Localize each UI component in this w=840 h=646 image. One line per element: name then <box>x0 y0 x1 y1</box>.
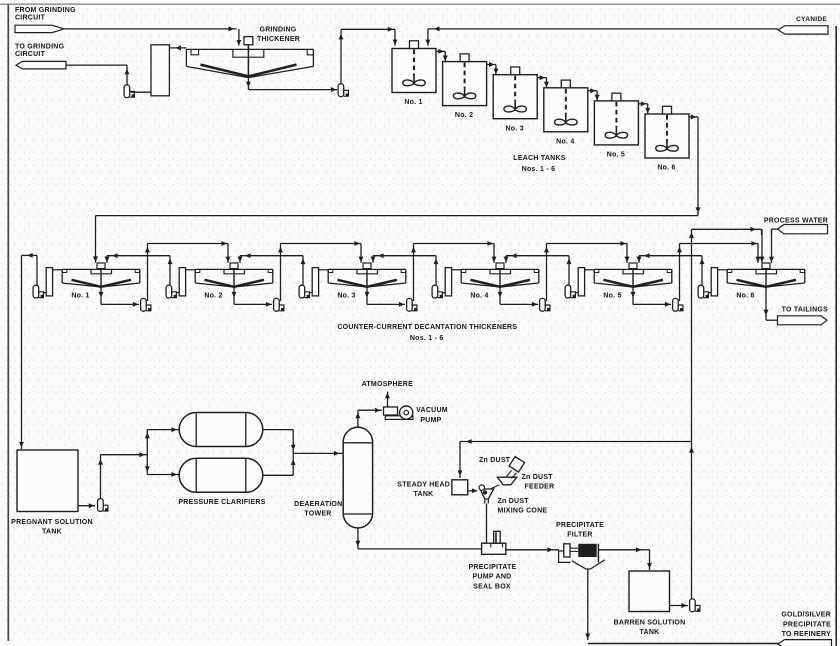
CCD No. 1 overflow return wire <box>36 256 38 286</box>
svg-text:Zn DUST: Zn DUST <box>498 498 530 505</box>
svg-text:TANK: TANK <box>414 491 434 498</box>
CCD No. 2 underflow wire and pump <box>233 287 235 304</box>
pump CCD No. 6 overflow <box>698 285 709 298</box>
CCD No. 4 underflow wire and pump <box>499 287 501 304</box>
svg-text:MIXING CONE: MIXING CONE <box>498 507 548 514</box>
leach tank No. 2 <box>443 54 487 106</box>
svg-text:BARREN SOLUTION: BARREN SOLUTION <box>614 619 686 626</box>
vacuum pump <box>384 406 413 419</box>
CCD No. 3 overflow return wire <box>302 256 304 286</box>
wire tower bottom to seal box <box>357 528 359 549</box>
svg-text:TO GRINDING: TO GRINDING <box>15 43 65 50</box>
svg-text:No. 2: No. 2 <box>455 112 473 119</box>
svg-text:SEAL BOX: SEAL BOX <box>473 583 511 590</box>
wire CCD No. 3 underflow to No. 4 <box>413 244 415 302</box>
pressure clarifier bottom vessel <box>179 458 263 492</box>
CCD No. 2 overflow return wire <box>169 256 171 286</box>
wire leach tank 4 to 5 <box>588 90 597 92</box>
wire vacuum pump vent to atmosphere <box>387 392 389 407</box>
CCD No. 5 feed entries <box>626 244 628 263</box>
wire CCD feed line from leach tanks <box>96 215 699 217</box>
Zn dust mixing cone <box>490 485 500 489</box>
svg-text:PRECIPITATE: PRECIPITATE <box>783 621 831 628</box>
pressure clarifier top vessel <box>179 413 263 447</box>
wire to-grinding from overflow pump <box>66 64 127 66</box>
wire pregnant solution down to tank <box>21 255 23 449</box>
svg-text:TO REFINERY: TO REFINERY <box>782 631 832 638</box>
deaeration tower <box>343 427 372 528</box>
overflow surge box <box>151 45 169 96</box>
wire barren solution riser <box>691 229 693 599</box>
wire barren tank to pump <box>670 605 689 607</box>
pump P-2 grinding thickener underflow <box>338 84 349 97</box>
svg-text:No. 3: No. 3 <box>506 125 524 132</box>
CCD thickener No. 5 <box>594 263 672 287</box>
svg-text:No. 4: No. 4 <box>470 292 488 299</box>
wire mixing cone to seal box <box>486 504 488 544</box>
svg-text:CIRCUIT: CIRCUIT <box>15 15 46 22</box>
flag TO TAILINGS <box>778 316 828 325</box>
CCD No. 3 feed entries <box>360 244 362 263</box>
precipitate pump and seal box <box>482 531 506 554</box>
CCD No. 6 underflow to tailings <box>765 287 767 320</box>
svg-text:No. 5: No. 5 <box>603 292 621 299</box>
CCD No. 3 underflow wire and pump <box>366 287 368 304</box>
wire thickener overflow to surge box <box>169 47 186 49</box>
pump CCD No. 1 overflow <box>33 285 44 298</box>
svg-text:PUMP AND: PUMP AND <box>473 574 512 581</box>
leach tank No. 6 <box>645 106 689 158</box>
flag CYANIDE <box>778 26 828 34</box>
pump P-1 grinding thickener overflow <box>124 85 135 98</box>
wire tower top to vacuum pump <box>357 410 359 427</box>
svg-text:DEAERATION: DEAERATION <box>294 501 342 508</box>
svg-text:TO TAILINGS: TO TAILINGS <box>782 306 829 313</box>
svg-text:Zn DUST: Zn DUST <box>522 474 554 481</box>
pump CCD No. 3 underflow <box>407 298 418 311</box>
wire leach tank 1 to 2 <box>436 50 445 52</box>
flag GOLD/SILVER PRECIPITATE <box>778 640 832 646</box>
svg-text:Zn DUST: Zn DUST <box>479 457 511 464</box>
svg-text:PROCESS WATER: PROCESS WATER <box>764 217 828 224</box>
wire seal box to precipitate filter <box>506 549 559 551</box>
svg-text:FILTER: FILTER <box>567 532 592 539</box>
grinding thickener underflow wire <box>247 78 249 90</box>
CCD No. 5 overflow column <box>578 268 584 296</box>
barren solution tank <box>629 571 670 612</box>
svg-text:GRINDING: GRINDING <box>260 26 297 33</box>
pump CCD No. 5 underflow <box>673 298 684 311</box>
Zn dust hopper <box>509 457 524 472</box>
svg-text:PREGNANT SOLUTION: PREGNANT SOLUTION <box>11 519 93 526</box>
svg-text:No. 3: No. 3 <box>337 292 355 299</box>
leach tank No. 1 <box>392 41 436 93</box>
clarifier feed split wire <box>146 430 148 455</box>
wire leach tank 5 to 6 <box>638 103 647 105</box>
pump CCD No. 5 overflow <box>565 285 576 298</box>
CCD No. 5 underflow wire and pump <box>632 287 634 304</box>
CCD No. 6 overflow column <box>711 268 717 296</box>
page right border <box>835 26 837 646</box>
wire from-grinding to thickener feed <box>64 28 237 30</box>
wire surge box to pump <box>131 91 151 93</box>
CCD No. 1 underflow wire and pump <box>100 287 102 304</box>
wire barren branch to steady head tank <box>460 441 692 443</box>
pump P-3 clarifier feed <box>98 499 109 512</box>
wire CCD No. 2 underflow to No. 3 <box>280 244 282 302</box>
svg-text:PRESSURE CLARIFIERS: PRESSURE CLARIFIERS <box>178 499 265 506</box>
svg-text:STEADY HEAD: STEADY HEAD <box>397 481 450 488</box>
CCD thickener No. 1 <box>62 263 140 287</box>
CCD thickener No. 2 <box>195 263 273 287</box>
svg-text:CYANIDE: CYANIDE <box>796 16 827 23</box>
CCD thickener No. 4 <box>461 263 539 287</box>
svg-text:CIRCUIT: CIRCUIT <box>15 51 46 58</box>
svg-text:No. 1: No. 1 <box>404 99 422 106</box>
flag TO GRINDING CIRCUIT <box>16 61 66 69</box>
pregnant solution tank <box>17 450 78 512</box>
CCD No. 1 overflow column <box>46 268 52 296</box>
CCD No. 1 feed entries <box>106 256 108 263</box>
filter discharge funnel <box>572 560 605 569</box>
flag FROM GRINDING CIRCUIT <box>15 25 64 32</box>
svg-text:GOLD/SILVER: GOLD/SILVER <box>781 612 831 619</box>
svg-text:Nos. 1 - 6: Nos. 1 - 6 <box>522 166 556 173</box>
CCD thickener No. 3 <box>328 263 406 287</box>
pump CCD No. 4 underflow <box>540 298 551 311</box>
svg-text:No. 4: No. 4 <box>556 138 574 145</box>
leach tank No. 3 <box>493 67 537 119</box>
svg-text:TANK: TANK <box>640 629 660 636</box>
CCD No. 6 overflow return wire <box>701 256 703 286</box>
svg-text:LEACH TANKS: LEACH TANKS <box>513 155 565 162</box>
wire leach tank 2 to 3 <box>487 64 496 66</box>
wire CCD No. 4 underflow to No. 5 <box>546 244 548 302</box>
svg-text:No. 6: No. 6 <box>657 165 675 172</box>
clarifier outlet merge wire <box>263 429 293 431</box>
pump CCD No. 3 overflow <box>299 285 310 298</box>
CCD No. 3 overflow column <box>312 268 318 296</box>
pump CCD No. 1 underflow <box>141 298 152 311</box>
CCD No. 5 overflow return wire <box>568 256 570 286</box>
svg-text:THICKENER: THICKENER <box>257 36 300 43</box>
svg-text:PUMP: PUMP <box>420 417 441 424</box>
wire pregnant tank to clarifier feed pump <box>78 505 95 507</box>
svg-text:TANK: TANK <box>42 529 62 536</box>
svg-text:No. 5: No. 5 <box>607 152 625 159</box>
CCD thickener No. 6 <box>727 263 805 287</box>
steady head tank <box>452 480 468 495</box>
leach tank No. 5 <box>594 93 638 145</box>
wire filtrate to barren tank <box>598 549 643 551</box>
svg-text:No. 1: No. 1 <box>71 292 89 299</box>
svg-text:ATMOSPHERE: ATMOSPHERE <box>362 381 413 388</box>
svg-text:COUNTER-CURRENT DECANTATION TH: COUNTER-CURRENT DECANTATION THICKENERS <box>337 324 517 331</box>
wire steady head tank to mixing cone <box>468 490 477 492</box>
svg-text:No. 2: No. 2 <box>204 292 222 299</box>
svg-text:FEEDER: FEEDER <box>525 483 555 490</box>
svg-text:PRECIPITATE: PRECIPITATE <box>556 522 604 529</box>
wire CCD No. 1 underflow to No. 2 <box>147 244 149 302</box>
flag PROCESS WATER <box>778 225 828 234</box>
pump CCD No. 4 overflow <box>432 285 443 298</box>
pump CCD No. 2 overflow <box>166 285 177 298</box>
leach tank No. 4 <box>544 80 588 132</box>
grinding thickener <box>186 37 313 78</box>
wire CCD No. 5 underflow to No. 6 <box>679 244 681 302</box>
svg-text:Nos. 1 - 6: Nos. 1 - 6 <box>410 335 444 342</box>
CCD No. 4 overflow column <box>445 268 451 296</box>
pump CCD No. 2 underflow <box>274 298 285 311</box>
svg-text:No. 6: No. 6 <box>736 292 754 299</box>
wire cyanide to leach tank 1 <box>428 28 778 30</box>
pump P-4 barren solution <box>690 599 701 612</box>
page top border <box>0 3 840 5</box>
precipitate filter <box>559 544 599 563</box>
CCD No. 4 overflow return wire <box>435 256 437 286</box>
wire underflow pump to leach tank 1 <box>340 29 342 83</box>
svg-text:TOWER: TOWER <box>304 510 331 517</box>
svg-text:FROM GRINDING: FROM GRINDING <box>15 7 76 14</box>
svg-text:PRECIPITATE: PRECIPITATE <box>469 564 517 571</box>
svg-text:VACUUM: VACUUM <box>416 407 448 414</box>
wire precipitate to refinery <box>587 569 589 640</box>
CCD No. 6 feed entries <box>757 244 759 263</box>
page left border <box>7 4 9 641</box>
CCD No. 4 feed entries <box>493 244 495 263</box>
wire process water to CCD No. 6 <box>772 228 778 230</box>
Zn dust feeder trough <box>497 477 517 485</box>
CCD No. 2 feed entries <box>227 244 229 263</box>
CCD No. 2 overflow column <box>179 268 185 296</box>
wire leach tank 6 to CCD feed <box>689 116 698 118</box>
wire leach tank 3 to 4 <box>537 77 546 79</box>
